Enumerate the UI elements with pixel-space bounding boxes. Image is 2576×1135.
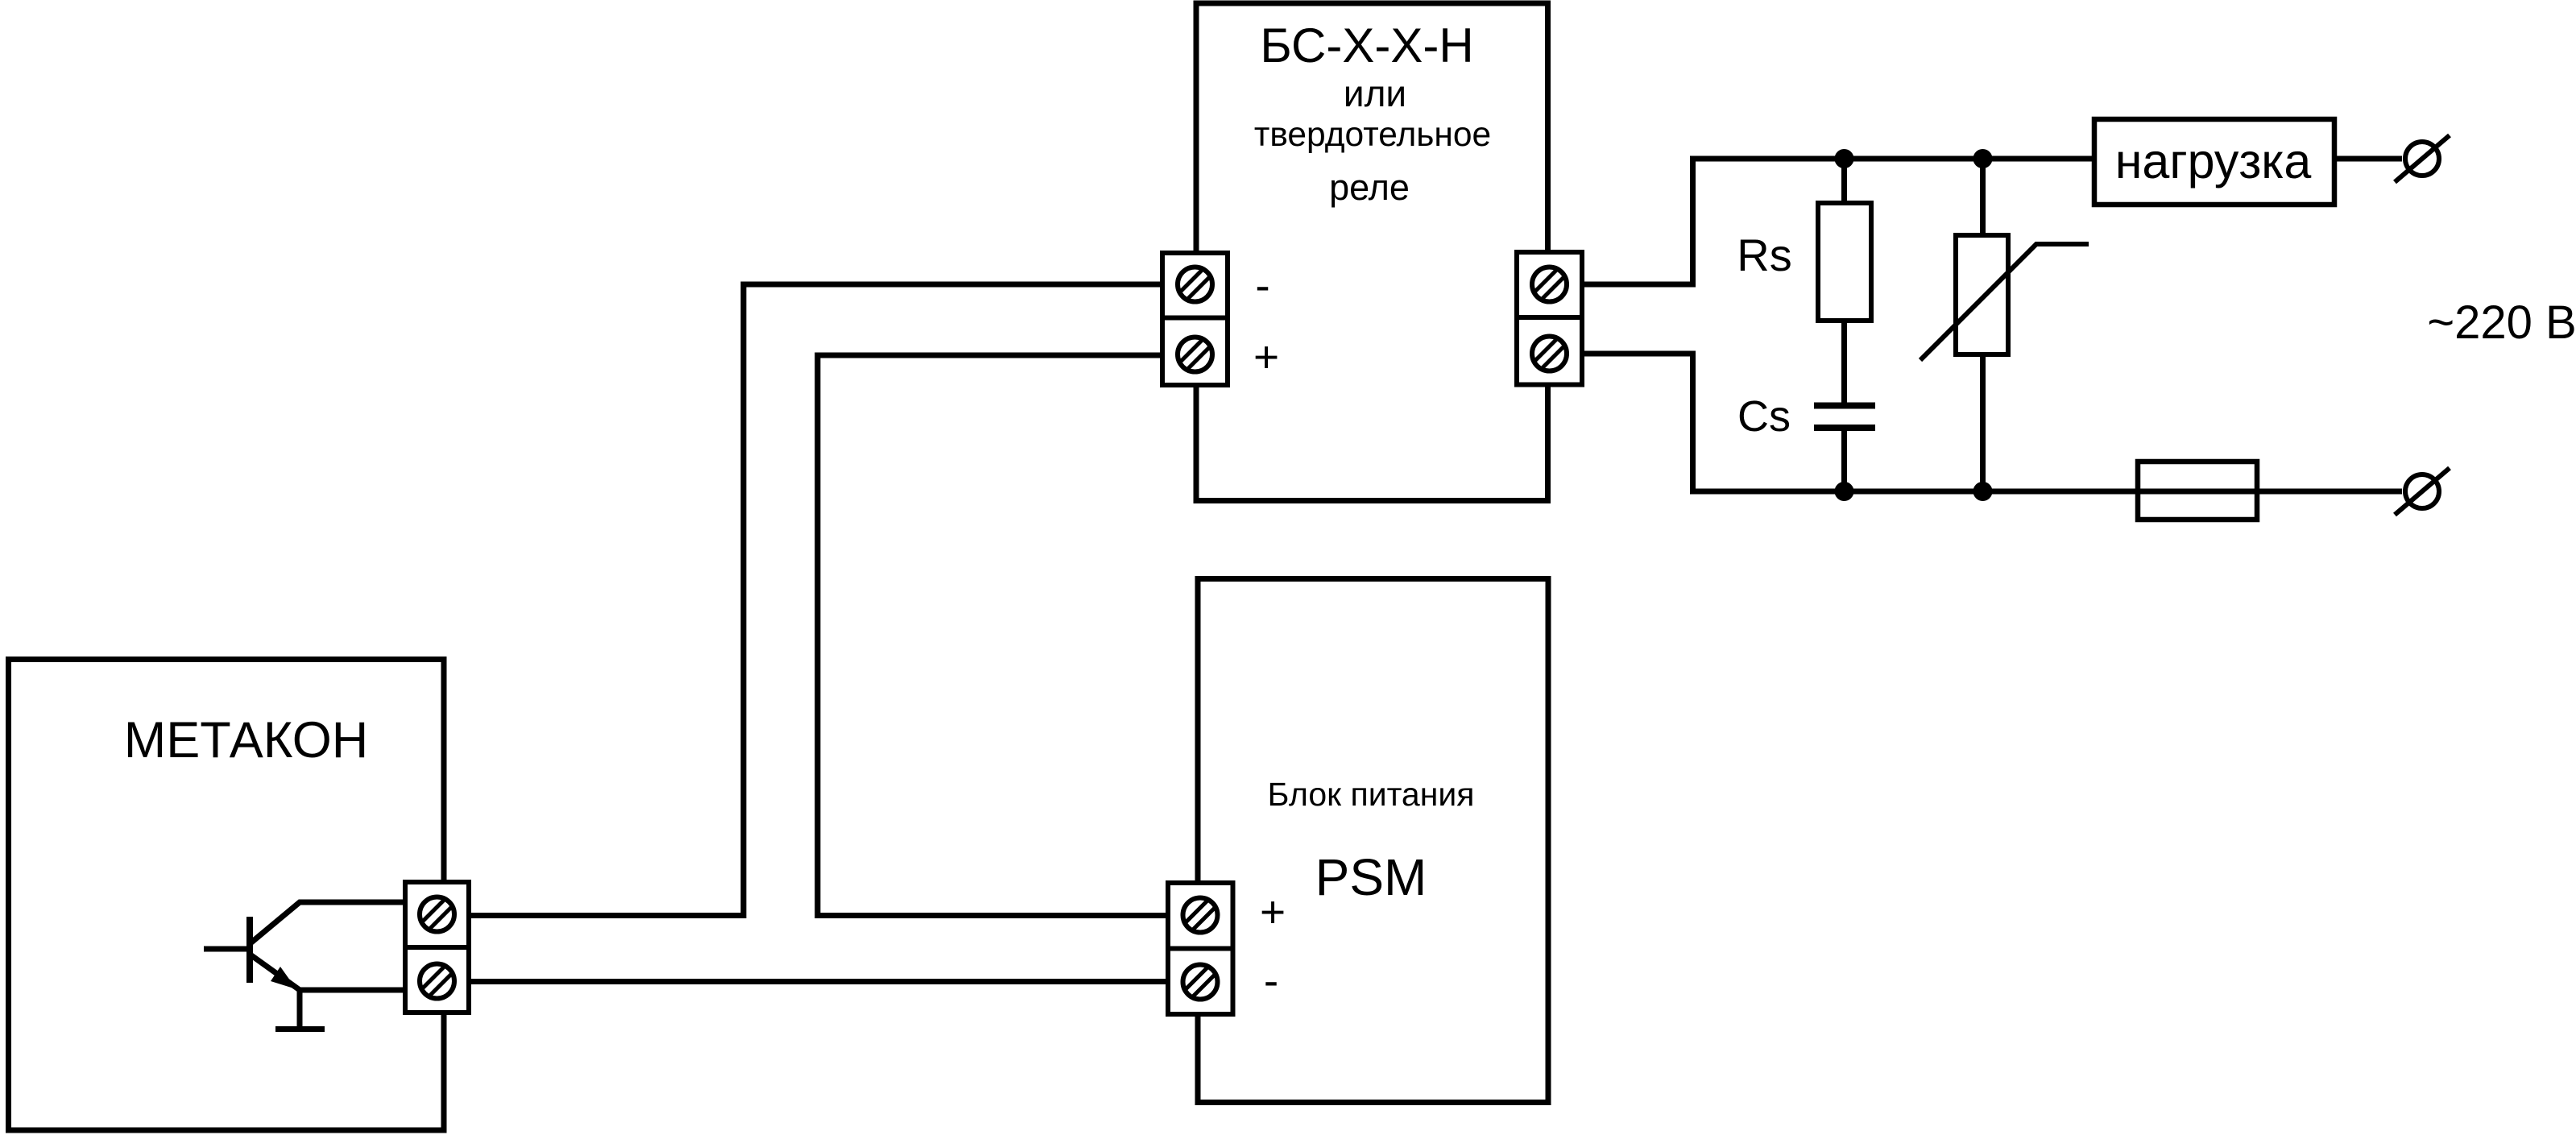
transistor Q1 bar (246, 917, 253, 983)
wire top rail to varistor (1980, 159, 1986, 235)
transistor Q1 collector (251, 902, 403, 942)
terminal circle bottom (mains) (2395, 468, 2450, 515)
varistor RU1 body (1956, 235, 2008, 354)
svg-text:-: - (1264, 955, 1278, 1005)
terminal block БС right (1517, 252, 1582, 385)
transistor Q1 base wire (204, 947, 250, 952)
wire Cs to bottom rail (1841, 428, 1847, 491)
block МЕТАКОН box (9, 660, 445, 1131)
svg-text:реле: реле (1329, 167, 1410, 208)
varistor diagonal stroke (1920, 244, 2089, 360)
svg-text:Rs: Rs (1737, 230, 1791, 280)
load нагрузка box (2094, 119, 2334, 205)
svg-text:МЕТАКОН: МЕТАКОН (124, 712, 368, 768)
svg-text:Блок питания: Блок питания (1268, 776, 1475, 813)
wire top rail to Rs (1841, 159, 1847, 203)
wire нагрузка to top terminal (2337, 156, 2402, 162)
fuse FU1 (2138, 462, 2257, 520)
wire БС right lower to bottom rail through fuse (1584, 354, 2402, 491)
wire Rs to Cs (1841, 321, 1847, 405)
svg-text:нагрузка: нагрузка (2115, 134, 2312, 188)
junction dot top left (1835, 149, 1854, 168)
wire БС minus to МЕТАКОН collector terminal (471, 284, 1160, 916)
terminal block МЕТАКОН (405, 882, 469, 1013)
svg-text:+: + (1253, 332, 1279, 382)
block БС-Х-Х-Н box (1196, 3, 1548, 501)
terminal block PSM (1168, 883, 1233, 1014)
svg-text:БС-Х-Х-Н: БС-Х-Х-Н (1260, 19, 1473, 72)
junction dot bottom right (1973, 482, 1993, 501)
block PSM box (1198, 579, 1548, 1103)
terminal circle top (mains) (2395, 135, 2450, 182)
transistor Q1 emitter arrowhead (271, 967, 296, 989)
svg-text:PSM: PSM (1315, 848, 1427, 906)
wire МЕТАКОН emitter terminal to PSM minus terminal (471, 979, 1168, 984)
junction dot bottom left (1835, 482, 1854, 501)
ground symbol (275, 990, 325, 1029)
terminal block БС left (1162, 253, 1228, 385)
wire БС plus to PSM plus terminal (818, 355, 1168, 916)
svg-text:-: - (1255, 260, 1269, 310)
svg-text:+: + (1260, 887, 1286, 937)
svg-text:или: или (1344, 72, 1406, 114)
svg-text:твердотельное: твердотельное (1254, 116, 1491, 154)
capacitor Cs (1814, 406, 1875, 429)
svg-text:Cs: Cs (1737, 392, 1791, 441)
wire varistor to bottom rail (1980, 354, 1986, 491)
transistor Q1 emitter (251, 955, 403, 990)
junction dot top right (1973, 149, 1993, 168)
svg-text:~220 В: ~220 В (2427, 296, 2576, 349)
wire БС right upper to top rail (1584, 159, 2094, 284)
resistor Rs (1818, 203, 1871, 321)
